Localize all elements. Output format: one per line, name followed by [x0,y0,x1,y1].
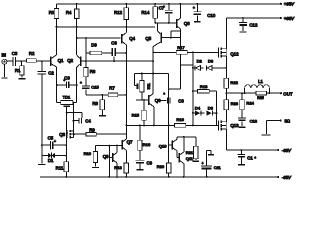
svg-text:R13: R13 [114,165,122,170]
svg-text:C1: C1 [247,155,253,160]
svg-text:Q1: Q1 [58,58,64,63]
svg-text:+: + [163,5,165,9]
svg-text:R2: R2 [29,51,35,56]
svg-text:C3: C3 [12,51,18,56]
svg-text:Q5: Q5 [145,36,151,41]
svg-text:IN: IN [2,53,6,58]
svg-text:C8: C8 [178,99,184,104]
svg-text:R8: R8 [92,101,98,106]
svg-text:+: + [202,162,204,166]
svg-text:C15: C15 [91,84,99,89]
svg-text:Q3: Q3 [59,132,65,137]
svg-text:+: + [63,79,65,83]
svg-text:R18: R18 [200,84,208,89]
svg-text:+68V: +68V [284,16,295,21]
svg-text:Q4: Q4 [129,36,135,41]
svg-text:Q7: Q7 [127,140,133,145]
svg-text:+: + [193,6,195,10]
svg-text:R4: R4 [66,10,72,15]
svg-text:C13: C13 [250,119,258,124]
svg-text:R17: R17 [177,45,185,50]
svg-text:C11: C11 [214,165,222,170]
svg-text:R23: R23 [231,101,239,106]
svg-text:C6: C6 [111,41,117,46]
svg-text:D3: D3 [208,58,214,63]
svg-text:+: + [54,140,56,144]
svg-text:Q2: Q2 [67,58,73,63]
svg-text:R15: R15 [132,113,140,118]
svg-text:R14: R14 [141,10,150,15]
svg-text:+65V: +65V [284,2,295,7]
svg-text:C12: C12 [249,22,258,27]
svg-text:R24: R24 [246,101,254,106]
svg-text:R1: R1 [15,68,21,73]
svg-text:Q10: Q10 [159,143,167,148]
svg-text:Q11: Q11 [186,156,194,161]
svg-text:R16: R16 [143,142,151,147]
svg-text:R25: R25 [257,96,264,100]
svg-text:+: + [163,92,165,96]
svg-text:R19: R19 [176,117,184,122]
svg-text:D4: D4 [195,105,201,110]
svg-text:C4: C4 [85,118,91,123]
svg-text:D2: D2 [197,58,203,63]
svg-text:Q9: Q9 [103,154,109,159]
svg-text:-65V: -65V [282,175,292,180]
svg-text:Q12: Q12 [230,52,239,57]
svg-text:R7: R7 [109,86,115,91]
svg-text:TD2: TD2 [147,83,151,89]
svg-text:L1: L1 [258,79,263,84]
svg-text:C10: C10 [207,13,216,18]
svg-text:R10: R10 [84,151,92,156]
svg-text:OUT: OUT [283,91,293,96]
svg-text:R21: R21 [186,150,194,155]
svg-text:R12: R12 [114,10,123,15]
svg-text:-68V: -68V [282,148,292,153]
svg-text:D6: D6 [208,105,214,110]
svg-text:+: + [80,81,82,85]
svg-text:R9: R9 [89,128,95,133]
svg-text:R3: R3 [49,10,55,15]
svg-text:R20: R20 [157,164,165,169]
svg-text:D1: D1 [48,158,54,163]
svg-text:C5: C5 [48,136,54,141]
svg-text:Q8: Q8 [184,21,190,26]
svg-text:Q13: Q13 [230,123,239,128]
svg-text:R6: R6 [90,69,96,74]
svg-text:C9: C9 [147,161,153,166]
svg-text:TD1: TD1 [63,94,71,99]
svg-text:8Ω: 8Ω [285,118,290,123]
svg-text:C2: C2 [48,70,54,75]
svg-text:R22: R22 [230,80,238,85]
svg-text:+: + [254,156,256,160]
svg-text:R11: R11 [56,166,64,171]
svg-text:D9: D9 [91,43,97,48]
